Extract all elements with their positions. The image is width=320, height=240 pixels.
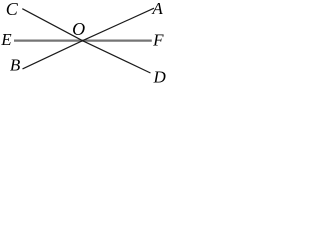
- wire line CD (descending diagonal): [22, 9, 150, 73]
- svg-text:D: D: [153, 68, 167, 87]
- svg-text:E: E: [0, 30, 12, 49]
- wire line EF (horizontal): [14, 39, 152, 41]
- svg-text:C: C: [6, 0, 19, 19]
- svg-text:F: F: [152, 30, 164, 49]
- wire line BA (ascending diagonal): [23, 8, 155, 69]
- svg-text:B: B: [10, 56, 21, 75]
- svg-text:O: O: [72, 19, 85, 39]
- svg-text:A: A: [151, 0, 163, 18]
